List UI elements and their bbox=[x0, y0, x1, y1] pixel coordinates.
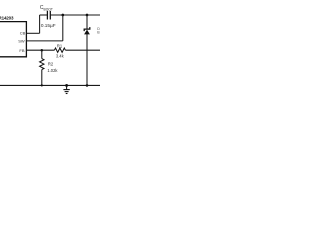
node junction dot R2/rail bbox=[41, 84, 43, 86]
svg-text:0.15µF: 0.15µF bbox=[41, 23, 56, 28]
wire SW line bbox=[26, 40, 62, 42]
wire FB line left segment bbox=[26, 49, 54, 51]
wire boot top line left of capacitor bbox=[40, 14, 48, 16]
svg-text:B2: B2 bbox=[97, 31, 100, 35]
resistor R1 zigzag bbox=[54, 48, 65, 52]
svg-text:CBOOT: CBOOT bbox=[40, 5, 53, 11]
svg-text:R2: R2 bbox=[48, 62, 54, 67]
svg-text:FB: FB bbox=[19, 48, 24, 53]
node junction dot at boot/SW riser bbox=[61, 14, 64, 17]
ground symbol bbox=[63, 85, 69, 93]
node junction dot ground tap bbox=[65, 84, 68, 87]
node junction dot diode top bbox=[86, 14, 89, 17]
diode D1 cathode bar (schottky) bbox=[84, 27, 90, 31]
wire FB line right segment bbox=[65, 49, 100, 51]
wire ground rail bbox=[0, 84, 100, 86]
wire CB stub bbox=[26, 32, 39, 34]
svg-text:R1: R1 bbox=[57, 44, 63, 49]
wire R2 lower lead bbox=[41, 70, 43, 86]
diode D1 triangle bbox=[84, 30, 90, 35]
op-amp U1 (regulator IC box, left edge cut off) bbox=[0, 22, 26, 57]
wire SW riser bbox=[62, 15, 64, 41]
svg-text:CB: CB bbox=[20, 31, 26, 36]
wire diode upper lead bbox=[86, 15, 88, 29]
svg-text:3.4k: 3.4k bbox=[56, 53, 65, 58]
svg-text:R14203: R14203 bbox=[0, 16, 14, 21]
wire CB riser bbox=[39, 15, 41, 33]
capacitor C_BOOT plates bbox=[47, 11, 50, 20]
wire diode lower lead bbox=[86, 34, 88, 86]
node junction dot diode/rail bbox=[86, 84, 89, 87]
resistor R2 zigzag bbox=[40, 59, 44, 70]
wire R2 upper lead bbox=[41, 50, 43, 58]
wire boot top line right of capacitor bbox=[50, 14, 100, 16]
svg-text:1.02k: 1.02k bbox=[47, 68, 58, 73]
svg-text:SW: SW bbox=[18, 39, 25, 44]
node junction dot FB/R2 bbox=[41, 49, 44, 52]
